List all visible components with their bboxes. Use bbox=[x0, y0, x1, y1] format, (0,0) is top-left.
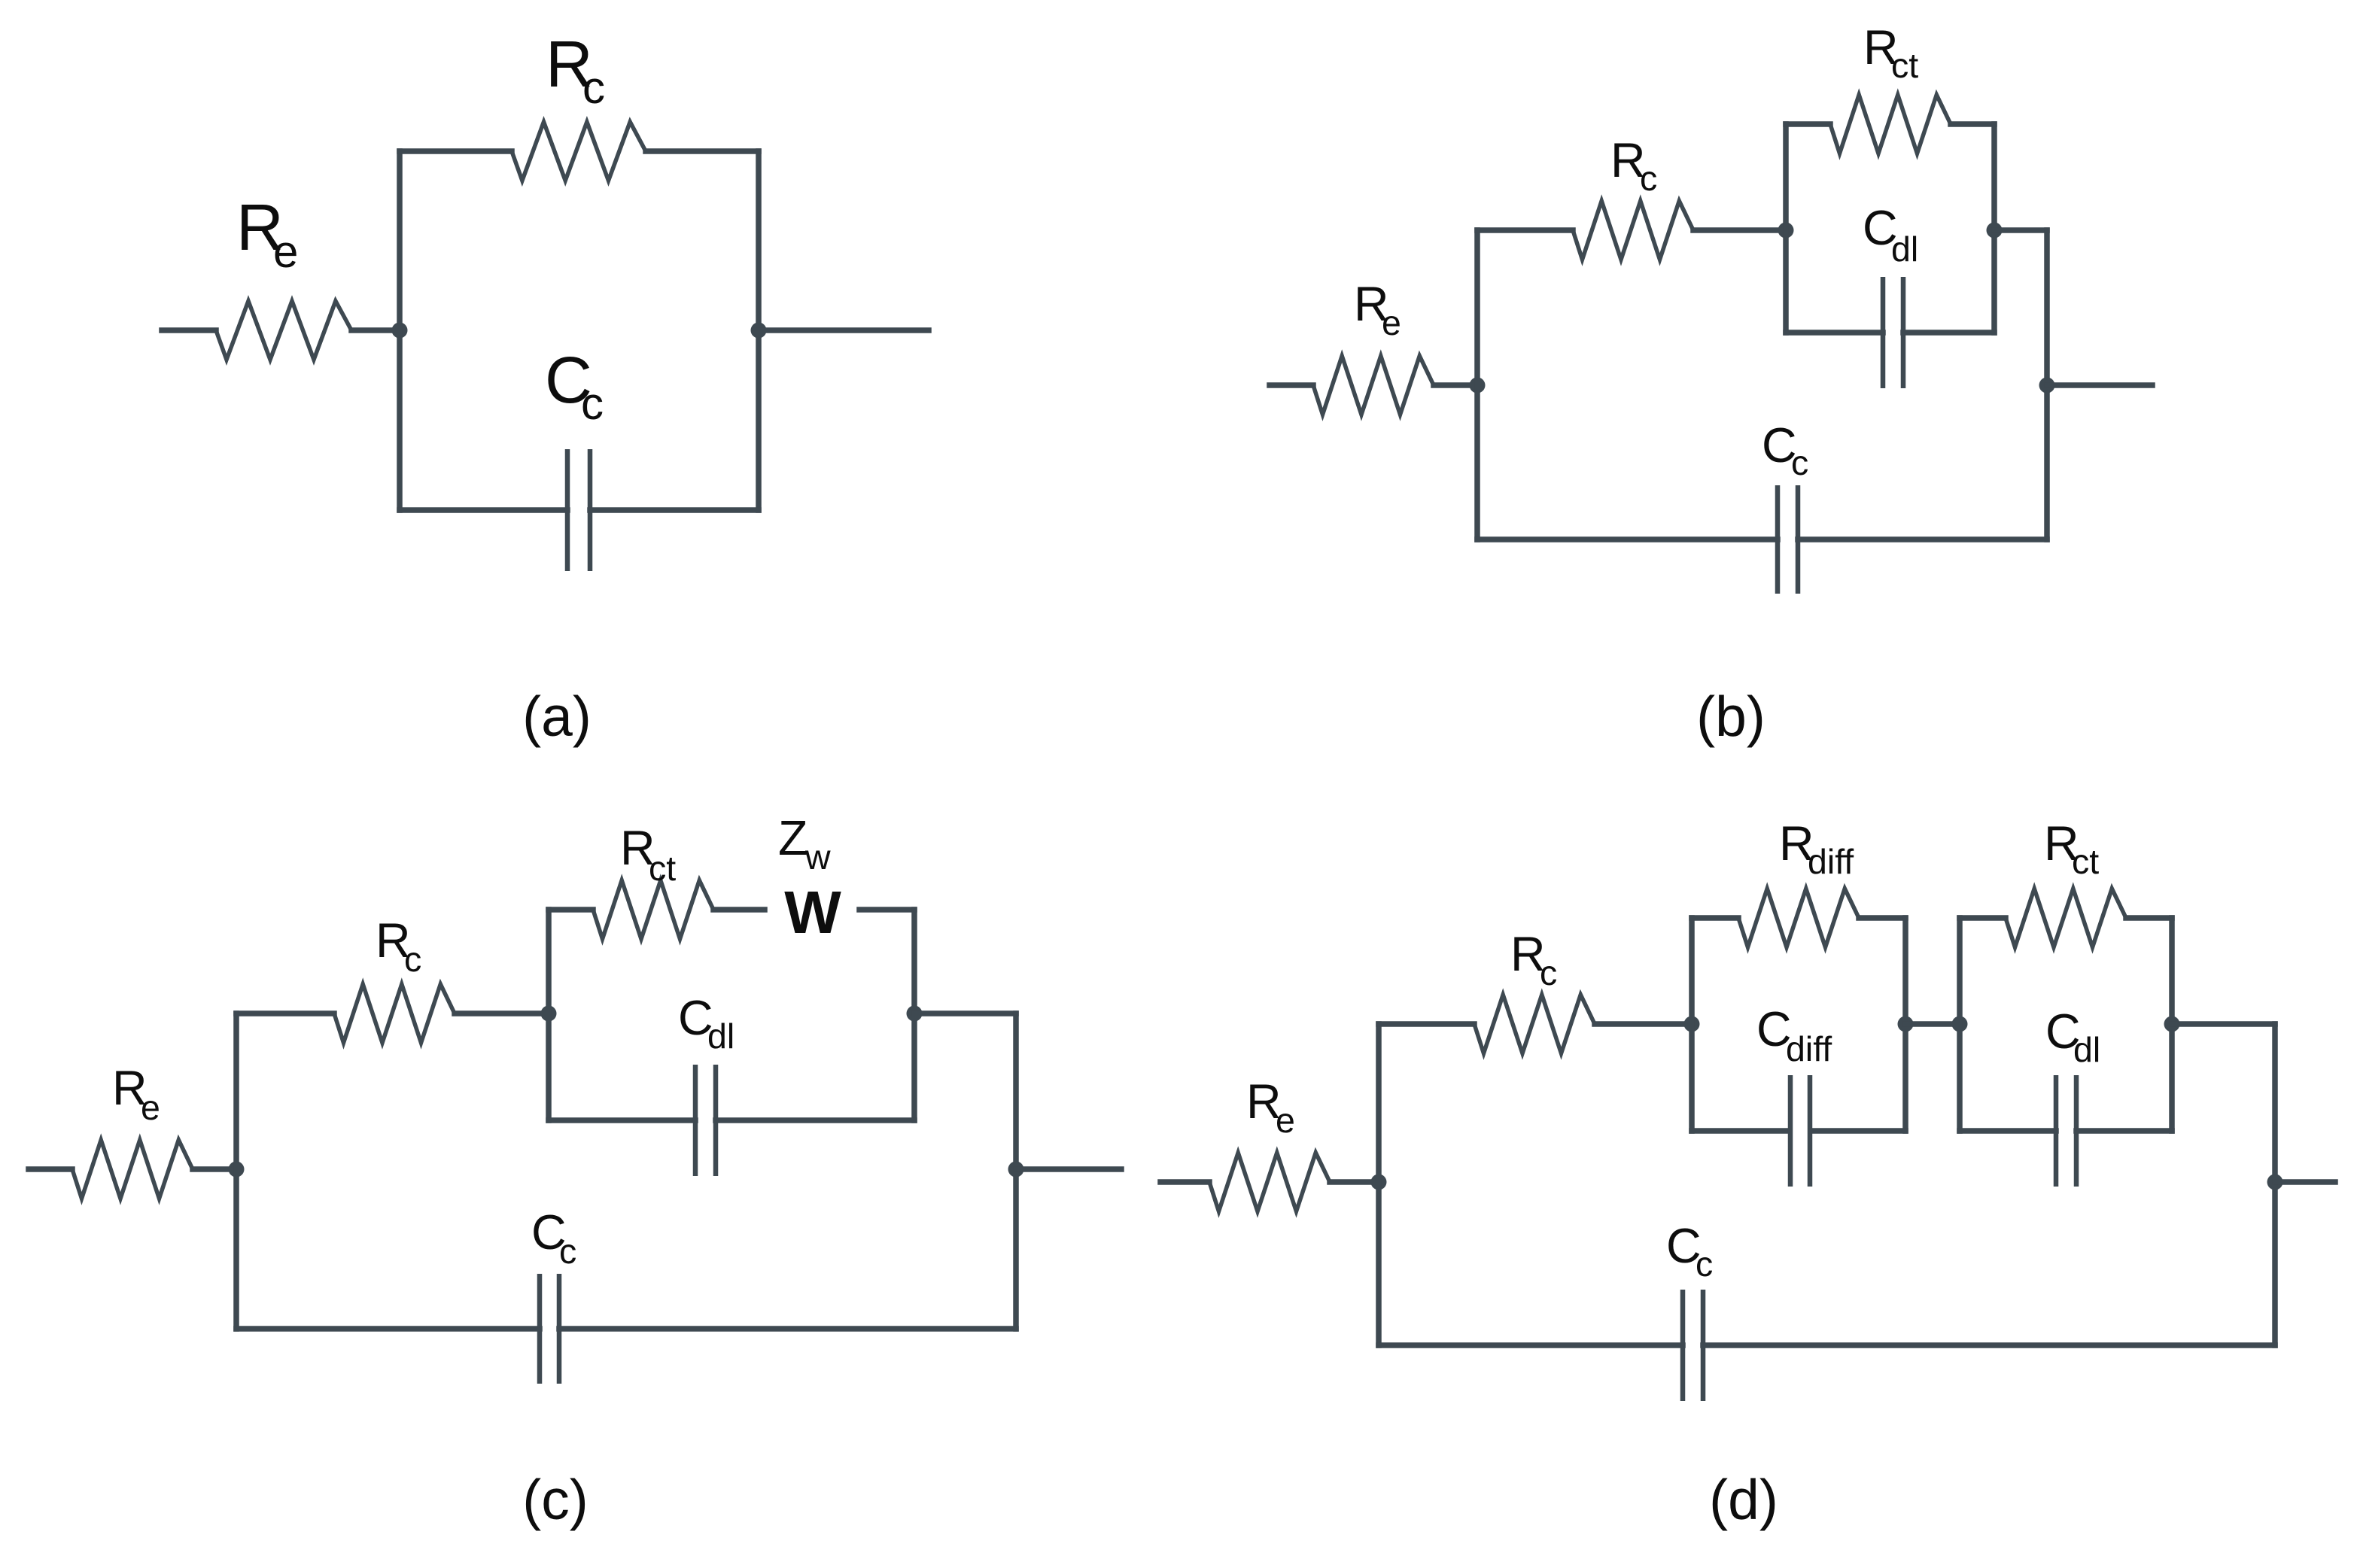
wire: box2 to right vertical (d) bbox=[2172, 1021, 2275, 1027]
label Cc (d) bbox=[1666, 1219, 1713, 1284]
label Rc (c) bbox=[376, 913, 421, 979]
svg-text:(b): (b) bbox=[1696, 685, 1765, 748]
resistor Rc (b) bbox=[1573, 201, 1693, 260]
wire: bottom edge right segment (b) bbox=[1798, 536, 2047, 542]
wire: inner box top-right segment (b) bbox=[1951, 121, 1994, 127]
label Rct (d) bbox=[2044, 816, 2099, 881]
label Rdiff (d) bbox=[1779, 816, 1854, 881]
wire: top branch to Rc (c) bbox=[236, 1010, 334, 1016]
wire: inner box right edge (c) bbox=[911, 910, 917, 1120]
resistor Rc (a) bbox=[512, 122, 646, 181]
capacitor Cdiff (d) bbox=[1790, 1075, 1810, 1187]
wire: box2 right edge (d) bbox=[2169, 918, 2175, 1131]
wire: Rc to box node (c) bbox=[455, 1010, 549, 1016]
wire: inner box bottom-left segment (c) bbox=[549, 1117, 695, 1123]
wire: inner box left edge (c) bbox=[546, 910, 552, 1120]
svg-text:W: W bbox=[784, 879, 841, 946]
resistor Re (a) bbox=[216, 301, 351, 360]
wire: left vertical (b) bbox=[1474, 230, 1480, 539]
node: Rct/Cdl right junction (d) bbox=[2164, 1016, 2180, 1032]
label Zw (c) bbox=[778, 811, 831, 877]
resistor Rdiff (d) bbox=[1738, 889, 1859, 947]
svg-text:e: e bbox=[1382, 303, 1401, 342]
label Rc (a) bbox=[546, 28, 605, 113]
wire: Rc to box1 node (d) bbox=[1595, 1021, 1692, 1027]
label Re (a) bbox=[236, 191, 298, 277]
node: input junction (c) bbox=[229, 1162, 245, 1178]
wire: inner box top-left segment (c) bbox=[549, 907, 593, 913]
svg-text:ct: ct bbox=[2072, 842, 2099, 881]
resistor Rc (d) bbox=[1474, 995, 1595, 1053]
wire: box2 top-right segment (d) bbox=[2126, 915, 2172, 921]
wire: Re to input node (d) bbox=[1330, 1179, 1379, 1185]
label Cc (a) bbox=[545, 344, 604, 429]
wire: left vertical (d) bbox=[1376, 1024, 1382, 1345]
wire: box1 top-left segment (d) bbox=[1692, 915, 1738, 921]
wire: input lead of circuit (d) bbox=[1160, 1179, 1209, 1185]
label Cc (c) bbox=[531, 1205, 576, 1271]
resistor Re (b) bbox=[1313, 356, 1434, 415]
wire: output lead (a) bbox=[759, 327, 929, 333]
node: output junction (c) bbox=[1008, 1162, 1024, 1178]
wire: box1 left edge (d) bbox=[1689, 918, 1695, 1131]
node: Rct/Cdl left junction (d) bbox=[1952, 1016, 1968, 1032]
node: Rct/Cdl left junction (b) bbox=[1778, 223, 1794, 239]
wire: Re to input node (b) bbox=[1434, 382, 1477, 388]
wire: Re to input node (a) bbox=[351, 327, 400, 333]
svg-text:w: w bbox=[804, 837, 831, 877]
label Cc (b) bbox=[1762, 418, 1808, 482]
wire: left branch vertical (a) bbox=[397, 151, 403, 510]
label Rc (b) bbox=[1610, 133, 1657, 198]
svg-text:e: e bbox=[1276, 1101, 1295, 1140]
wire: right vertical (d) bbox=[2272, 1024, 2278, 1345]
label Cdl (b) bbox=[1863, 201, 1918, 269]
wire: bottom edge left segment (c) bbox=[236, 1326, 540, 1332]
capacitor Cdl (b) bbox=[1883, 277, 1903, 388]
capacitor Cdl (d) bbox=[2056, 1075, 2076, 1187]
resistor Rc (c) bbox=[334, 984, 455, 1043]
node: output junction (d) bbox=[2267, 1174, 2283, 1190]
wire: left vertical (c) bbox=[233, 1013, 239, 1329]
svg-text:c: c bbox=[1696, 1244, 1713, 1284]
wire: bottom edge right segment (a) bbox=[590, 507, 759, 513]
node: Rdiff/Cdiff right junction (d) bbox=[1898, 1016, 1914, 1032]
wire: Rc to box node (b) bbox=[1693, 227, 1786, 233]
svg-text:c: c bbox=[582, 62, 605, 113]
wire: output lead (c) bbox=[1016, 1166, 1121, 1172]
wire: right vertical (b) bbox=[2044, 230, 2050, 539]
wire: output lead (d) bbox=[2275, 1179, 2335, 1185]
resistor Rct (c) bbox=[593, 880, 713, 939]
wire: Rct to Warburg element (c) bbox=[713, 907, 765, 913]
resistor Re (d) bbox=[1209, 1153, 1330, 1211]
svg-text:diff: diff bbox=[1808, 842, 1854, 881]
wire: box to right vertical (c) bbox=[914, 1010, 1016, 1016]
svg-text:c: c bbox=[1791, 443, 1808, 482]
svg-text:c: c bbox=[1540, 953, 1557, 992]
label Re (d) bbox=[1246, 1074, 1295, 1140]
svg-text:(a): (a) bbox=[522, 685, 592, 748]
svg-text:ct: ct bbox=[1891, 46, 1918, 85]
wire: box2 bottom-left segment (d) bbox=[1960, 1128, 2056, 1134]
label Rct (b) bbox=[1863, 20, 1918, 85]
resistor Rct (b) bbox=[1830, 95, 1951, 153]
wire: output lead (b) bbox=[2047, 382, 2152, 388]
wire: input lead of circuit (c) bbox=[29, 1166, 72, 1172]
node: input junction (d) bbox=[1371, 1174, 1387, 1190]
wire: top branch to Rc (b) bbox=[1477, 227, 1573, 233]
wire: top edge right segment (a) bbox=[646, 148, 759, 154]
node: Rdiff/Cdiff left junction (d) bbox=[1684, 1016, 1700, 1032]
wire: top branch to Rc (d) bbox=[1379, 1021, 1474, 1027]
node: inner box right junction (c) bbox=[907, 1006, 923, 1022]
svg-text:c: c bbox=[559, 1232, 576, 1271]
svg-text:(c): (c) bbox=[522, 1468, 588, 1531]
wire: right vertical (c) bbox=[1013, 1013, 1019, 1329]
capacitor Cc (a) bbox=[567, 449, 590, 571]
label Cdl (d) bbox=[2045, 1004, 2100, 1069]
capacitor Cc (c) bbox=[540, 1274, 559, 1384]
node: output junction (a) bbox=[751, 323, 767, 339]
capacitor Cc (d) bbox=[1683, 1290, 1703, 1401]
wire: bottom edge right segment (d) bbox=[1703, 1342, 2275, 1348]
label Cdl (c) bbox=[678, 991, 734, 1056]
wire: box1 bottom-left segment (d) bbox=[1692, 1128, 1790, 1134]
node: Rct/Cdl right junction (b) bbox=[1987, 223, 2003, 239]
svg-text:e: e bbox=[273, 226, 298, 277]
resistor Rct (d) bbox=[2006, 889, 2126, 947]
resistor Re (c) bbox=[72, 1140, 193, 1199]
svg-text:c: c bbox=[1640, 159, 1657, 198]
wire: box to right vertical (b) bbox=[1994, 227, 2047, 233]
label Rc (d) bbox=[1510, 927, 1557, 992]
wire: box2 left edge (d) bbox=[1957, 918, 1963, 1131]
wire: box1 right edge (d) bbox=[1902, 918, 1908, 1131]
label Re (c) bbox=[112, 1061, 160, 1127]
wire: bottom edge left segment (b) bbox=[1477, 536, 1778, 542]
svg-text:dl: dl bbox=[1891, 229, 1918, 269]
wire: input lead of circuit (a) bbox=[162, 327, 216, 333]
wire: box1 to box2 link (d) bbox=[1905, 1021, 1960, 1027]
wire: box1 top-right segment (d) bbox=[1859, 915, 1905, 921]
wire: bottom edge left segment (d) bbox=[1379, 1342, 1683, 1348]
wire: right branch vertical (a) bbox=[756, 151, 762, 510]
wire: box2 bottom-right segment (d) bbox=[2076, 1128, 2172, 1134]
svg-text:dl: dl bbox=[2073, 1030, 2100, 1069]
svg-text:ct: ct bbox=[649, 849, 676, 888]
label Cdiff (d) bbox=[1756, 1002, 1832, 1068]
node: output junction (b) bbox=[2039, 378, 2055, 394]
label Re (b) bbox=[1354, 277, 1401, 342]
svg-text:(d): (d) bbox=[1709, 1468, 1778, 1531]
wire: inner box top-left segment (b) bbox=[1786, 121, 1830, 127]
wire: inner box left edge (b) bbox=[1783, 124, 1789, 333]
wire: box1 bottom-right segment (d) bbox=[1811, 1128, 1905, 1134]
svg-text:Z: Z bbox=[778, 811, 807, 865]
svg-text:dl: dl bbox=[707, 1016, 734, 1056]
wire: bottom edge left segment (a) bbox=[400, 507, 567, 513]
node: input junction (a) bbox=[392, 323, 408, 339]
svg-text:c: c bbox=[404, 940, 421, 979]
capacitor Cdl (c) bbox=[695, 1065, 716, 1176]
svg-text:c: c bbox=[581, 378, 604, 429]
svg-text:e: e bbox=[141, 1088, 160, 1127]
svg-text:diff: diff bbox=[1786, 1029, 1832, 1068]
capacitor Cc (b) bbox=[1778, 485, 1798, 594]
wire: inner box bottom-left segment (b) bbox=[1786, 330, 1883, 336]
wire: Re to input node (c) bbox=[193, 1166, 236, 1172]
node: input junction (b) bbox=[1470, 378, 1486, 394]
node: inner box left junction (c) bbox=[541, 1006, 557, 1022]
wire: bottom edge right segment (c) bbox=[559, 1326, 1016, 1332]
wire: top edge left segment (a) bbox=[400, 148, 512, 154]
wire: input lead of circuit (b) bbox=[1270, 382, 1313, 388]
wire: inner box bottom-right segment (c) bbox=[716, 1117, 914, 1123]
label Rct (c) bbox=[620, 821, 676, 888]
wire: inner box right edge (b) bbox=[1991, 124, 1997, 333]
wire: Warburg to box corner (c) bbox=[859, 907, 914, 913]
wire: box2 top-left segment (d) bbox=[1960, 915, 2006, 921]
wire: inner box bottom-right segment (b) bbox=[1903, 330, 1994, 336]
